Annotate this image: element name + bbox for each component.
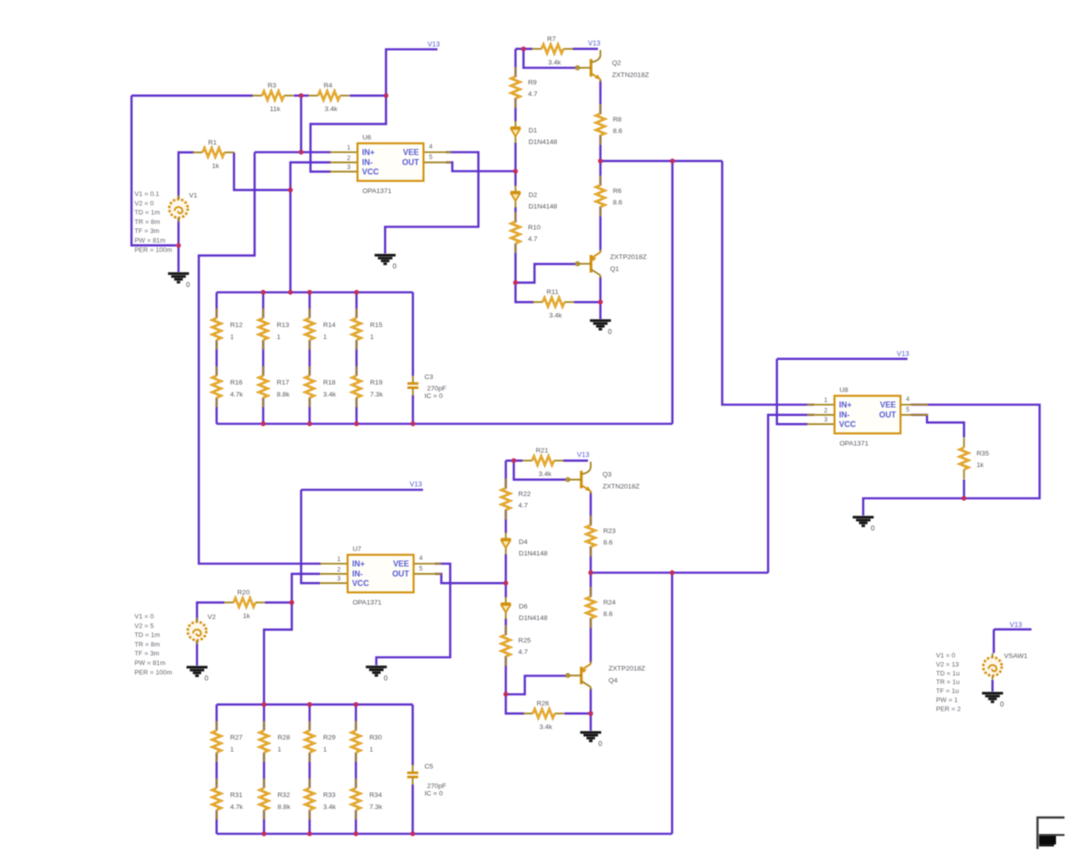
- svg-text:D1N4148: D1N4148: [529, 139, 558, 146]
- svg-text:4.7: 4.7: [518, 649, 528, 656]
- svg-text:VCC: VCC: [352, 579, 369, 588]
- svg-text:IN+: IN+: [352, 560, 365, 569]
- svg-text:TF = 3m: TF = 3m: [135, 228, 160, 235]
- svg-text:PW = 1: PW = 1: [936, 697, 958, 704]
- svg-text:8.8k: 8.8k: [277, 392, 290, 399]
- svg-text:OPA1371: OPA1371: [840, 440, 869, 447]
- svg-text:1: 1: [323, 334, 327, 341]
- svg-text:VEE: VEE: [403, 148, 420, 157]
- svg-text:R7: R7: [547, 36, 556, 43]
- svg-text:4.7k: 4.7k: [230, 804, 243, 811]
- svg-text:0: 0: [608, 329, 612, 336]
- svg-text:Q2: Q2: [612, 60, 621, 67]
- svg-text:TR = 8m: TR = 8m: [135, 641, 161, 648]
- svg-text:IN-: IN-: [352, 570, 363, 579]
- svg-text:4.7: 4.7: [528, 236, 538, 243]
- svg-text:ZXTP2018Z: ZXTP2018Z: [609, 666, 646, 673]
- svg-text:D1N4148: D1N4148: [519, 615, 548, 622]
- svg-text:V13: V13: [428, 42, 441, 49]
- svg-text:V2: V2: [208, 614, 217, 621]
- svg-text:R17: R17: [277, 380, 290, 387]
- svg-text:R24: R24: [603, 600, 616, 607]
- svg-text:U8: U8: [840, 387, 849, 394]
- svg-text:R1: R1: [208, 139, 217, 146]
- svg-text:3.4k: 3.4k: [323, 392, 336, 399]
- svg-text:R4: R4: [324, 83, 333, 90]
- svg-text:R27: R27: [230, 735, 243, 742]
- svg-text:R32: R32: [278, 792, 291, 799]
- svg-text:1k: 1k: [243, 613, 251, 620]
- svg-text:V2 = 5: V2 = 5: [135, 623, 155, 630]
- svg-text:D1N4148: D1N4148: [519, 551, 548, 558]
- svg-text:270pF: 270pF: [427, 386, 446, 393]
- svg-text:ZXTN2018Z: ZXTN2018Z: [603, 484, 640, 491]
- svg-text:1: 1: [347, 145, 351, 152]
- svg-text:VEE: VEE: [880, 401, 897, 410]
- svg-text:PER = 2: PER = 2: [936, 706, 961, 713]
- svg-text:0: 0: [393, 264, 397, 271]
- svg-text:VCC: VCC: [839, 420, 856, 429]
- svg-text:V13: V13: [1010, 622, 1023, 629]
- svg-text:0: 0: [384, 675, 388, 682]
- svg-text:2: 2: [824, 407, 828, 414]
- svg-text:R29: R29: [323, 735, 336, 742]
- svg-text:R14: R14: [323, 322, 336, 329]
- svg-text:V2 = 13: V2 = 13: [936, 661, 959, 668]
- svg-text:R10: R10: [528, 225, 541, 232]
- svg-text:IN-: IN-: [362, 158, 373, 167]
- svg-text:OPA1371: OPA1371: [353, 599, 382, 606]
- svg-text:4: 4: [419, 555, 423, 562]
- svg-text:R20: R20: [237, 590, 250, 597]
- svg-text:3.4k: 3.4k: [539, 724, 552, 731]
- svg-text:5: 5: [906, 406, 910, 413]
- svg-text:D1: D1: [529, 128, 538, 135]
- svg-text:0: 0: [598, 741, 602, 748]
- svg-text:1: 1: [230, 747, 234, 754]
- svg-text:4.7k: 4.7k: [230, 392, 243, 399]
- svg-text:V1 = 0: V1 = 0: [135, 614, 155, 621]
- svg-text:R18: R18: [323, 380, 336, 387]
- svg-text:3.4k: 3.4k: [323, 804, 336, 811]
- svg-text:D6: D6: [519, 604, 528, 611]
- svg-text:OUT: OUT: [402, 158, 419, 167]
- svg-text:1: 1: [369, 747, 373, 754]
- svg-text:V1: V1: [189, 193, 198, 200]
- svg-text:D4: D4: [519, 539, 528, 546]
- svg-text:Q4: Q4: [609, 678, 618, 685]
- svg-text:7.3k: 7.3k: [369, 804, 382, 811]
- svg-text:TD = 1m: TD = 1m: [135, 210, 161, 217]
- svg-text:V13: V13: [410, 482, 423, 489]
- svg-text:R31: R31: [230, 792, 243, 799]
- svg-text:3.4k: 3.4k: [548, 59, 561, 66]
- svg-text:R23: R23: [603, 528, 616, 535]
- svg-text:OUT: OUT: [879, 411, 896, 420]
- svg-text:IC = 0: IC = 0: [425, 393, 444, 400]
- svg-text:C3: C3: [425, 374, 434, 381]
- svg-text:8.6: 8.6: [613, 128, 623, 135]
- svg-text:Q1: Q1: [610, 266, 619, 273]
- svg-text:D1N4148: D1N4148: [529, 204, 558, 211]
- svg-text:5: 5: [419, 565, 423, 572]
- svg-text:V1 = 0.1: V1 = 0.1: [135, 191, 160, 198]
- svg-text:OPA1371: OPA1371: [363, 188, 392, 195]
- svg-text:ZXTP2018Z: ZXTP2018Z: [610, 254, 647, 261]
- svg-text:OUT: OUT: [392, 570, 409, 579]
- svg-text:8.6: 8.6: [613, 200, 623, 207]
- svg-text:3: 3: [347, 164, 351, 171]
- svg-text:7.3k: 7.3k: [370, 392, 383, 399]
- svg-text:R13: R13: [277, 322, 290, 329]
- svg-text:1: 1: [824, 397, 828, 404]
- svg-text:1: 1: [278, 747, 282, 754]
- svg-text:3: 3: [824, 417, 828, 424]
- svg-text:0: 0: [186, 282, 190, 289]
- svg-text:R26: R26: [537, 701, 550, 708]
- svg-text:1: 1: [337, 556, 341, 563]
- svg-text:V1 = 0: V1 = 0: [936, 653, 956, 660]
- svg-text:C5: C5: [425, 764, 434, 771]
- svg-text:PW = 81m: PW = 81m: [135, 660, 166, 667]
- svg-text:IN-: IN-: [839, 411, 850, 420]
- svg-text:V13: V13: [897, 351, 910, 358]
- svg-text:V13: V13: [577, 452, 590, 459]
- svg-text:3: 3: [337, 576, 341, 583]
- svg-text:R19: R19: [370, 380, 383, 387]
- svg-text:4.7: 4.7: [518, 503, 528, 510]
- svg-text:1k: 1k: [977, 462, 985, 469]
- svg-text:R9: R9: [528, 80, 537, 87]
- svg-text:3.4k: 3.4k: [539, 471, 552, 478]
- svg-text:4: 4: [429, 144, 433, 151]
- svg-text:8.8k: 8.8k: [278, 804, 291, 811]
- svg-text:R15: R15: [370, 322, 383, 329]
- svg-text:VCC: VCC: [362, 167, 379, 176]
- svg-text:5: 5: [429, 154, 433, 161]
- svg-text:R3: R3: [268, 83, 277, 90]
- svg-text:R22: R22: [518, 491, 531, 498]
- svg-text:IN+: IN+: [839, 401, 852, 410]
- svg-text:1k: 1k: [212, 163, 220, 170]
- svg-text:0: 0: [871, 526, 875, 533]
- svg-text:8.6: 8.6: [603, 540, 613, 547]
- svg-text:R12: R12: [230, 322, 243, 329]
- svg-text:11k: 11k: [270, 106, 281, 113]
- svg-text:TF = 1u: TF = 1u: [936, 688, 959, 695]
- svg-text:R11: R11: [547, 289, 559, 296]
- svg-text:TR = 8m: TR = 8m: [135, 219, 161, 226]
- svg-text:U7: U7: [353, 546, 362, 553]
- svg-text:R28: R28: [278, 735, 291, 742]
- svg-text:1: 1: [230, 334, 234, 341]
- svg-text:D2: D2: [529, 192, 538, 199]
- svg-text:R35: R35: [977, 451, 990, 458]
- svg-text:R25: R25: [518, 638, 531, 645]
- svg-text:R33: R33: [323, 792, 336, 799]
- svg-text:ZXTN2018Z: ZXTN2018Z: [612, 72, 649, 79]
- svg-text:R30: R30: [369, 735, 382, 742]
- svg-text:0: 0: [205, 676, 209, 683]
- svg-text:2: 2: [337, 566, 341, 573]
- svg-text:VSAW1: VSAW1: [1004, 653, 1028, 660]
- svg-text:1: 1: [323, 747, 327, 754]
- svg-text:Q3: Q3: [603, 472, 612, 479]
- svg-text:TD = 1m: TD = 1m: [135, 632, 161, 639]
- svg-text:1: 1: [277, 334, 281, 341]
- svg-text:R8: R8: [613, 117, 622, 124]
- svg-text:R16: R16: [230, 380, 243, 387]
- svg-text:3.4k: 3.4k: [549, 313, 562, 320]
- svg-text:VEE: VEE: [393, 560, 410, 569]
- svg-text:4.7: 4.7: [528, 91, 538, 98]
- svg-text:4: 4: [906, 396, 910, 403]
- svg-text:PER = 100m: PER = 100m: [135, 669, 173, 676]
- svg-text:TF = 3m: TF = 3m: [135, 651, 160, 658]
- svg-text:R34: R34: [369, 792, 382, 799]
- svg-text:1: 1: [370, 334, 374, 341]
- svg-text:0: 0: [1000, 702, 1004, 709]
- svg-text:R21: R21: [536, 448, 549, 455]
- svg-text:8.6: 8.6: [603, 611, 613, 618]
- svg-text:IN+: IN+: [362, 148, 375, 157]
- svg-text:270pF: 270pF: [427, 783, 446, 790]
- svg-text:U6: U6: [363, 134, 372, 141]
- svg-text:PW = 81m: PW = 81m: [135, 238, 166, 245]
- svg-text:V2 = 0: V2 = 0: [135, 200, 155, 207]
- svg-text:IC = 0: IC = 0: [425, 791, 444, 798]
- svg-text:R6: R6: [613, 188, 622, 195]
- svg-text:TD = 1u: TD = 1u: [936, 670, 960, 677]
- svg-text:PER = 100m: PER = 100m: [135, 247, 173, 254]
- svg-text:2: 2: [347, 155, 351, 162]
- svg-text:TR = 1u: TR = 1u: [936, 679, 960, 686]
- svg-text:3.4k: 3.4k: [325, 106, 338, 113]
- svg-text:V13: V13: [588, 41, 601, 48]
